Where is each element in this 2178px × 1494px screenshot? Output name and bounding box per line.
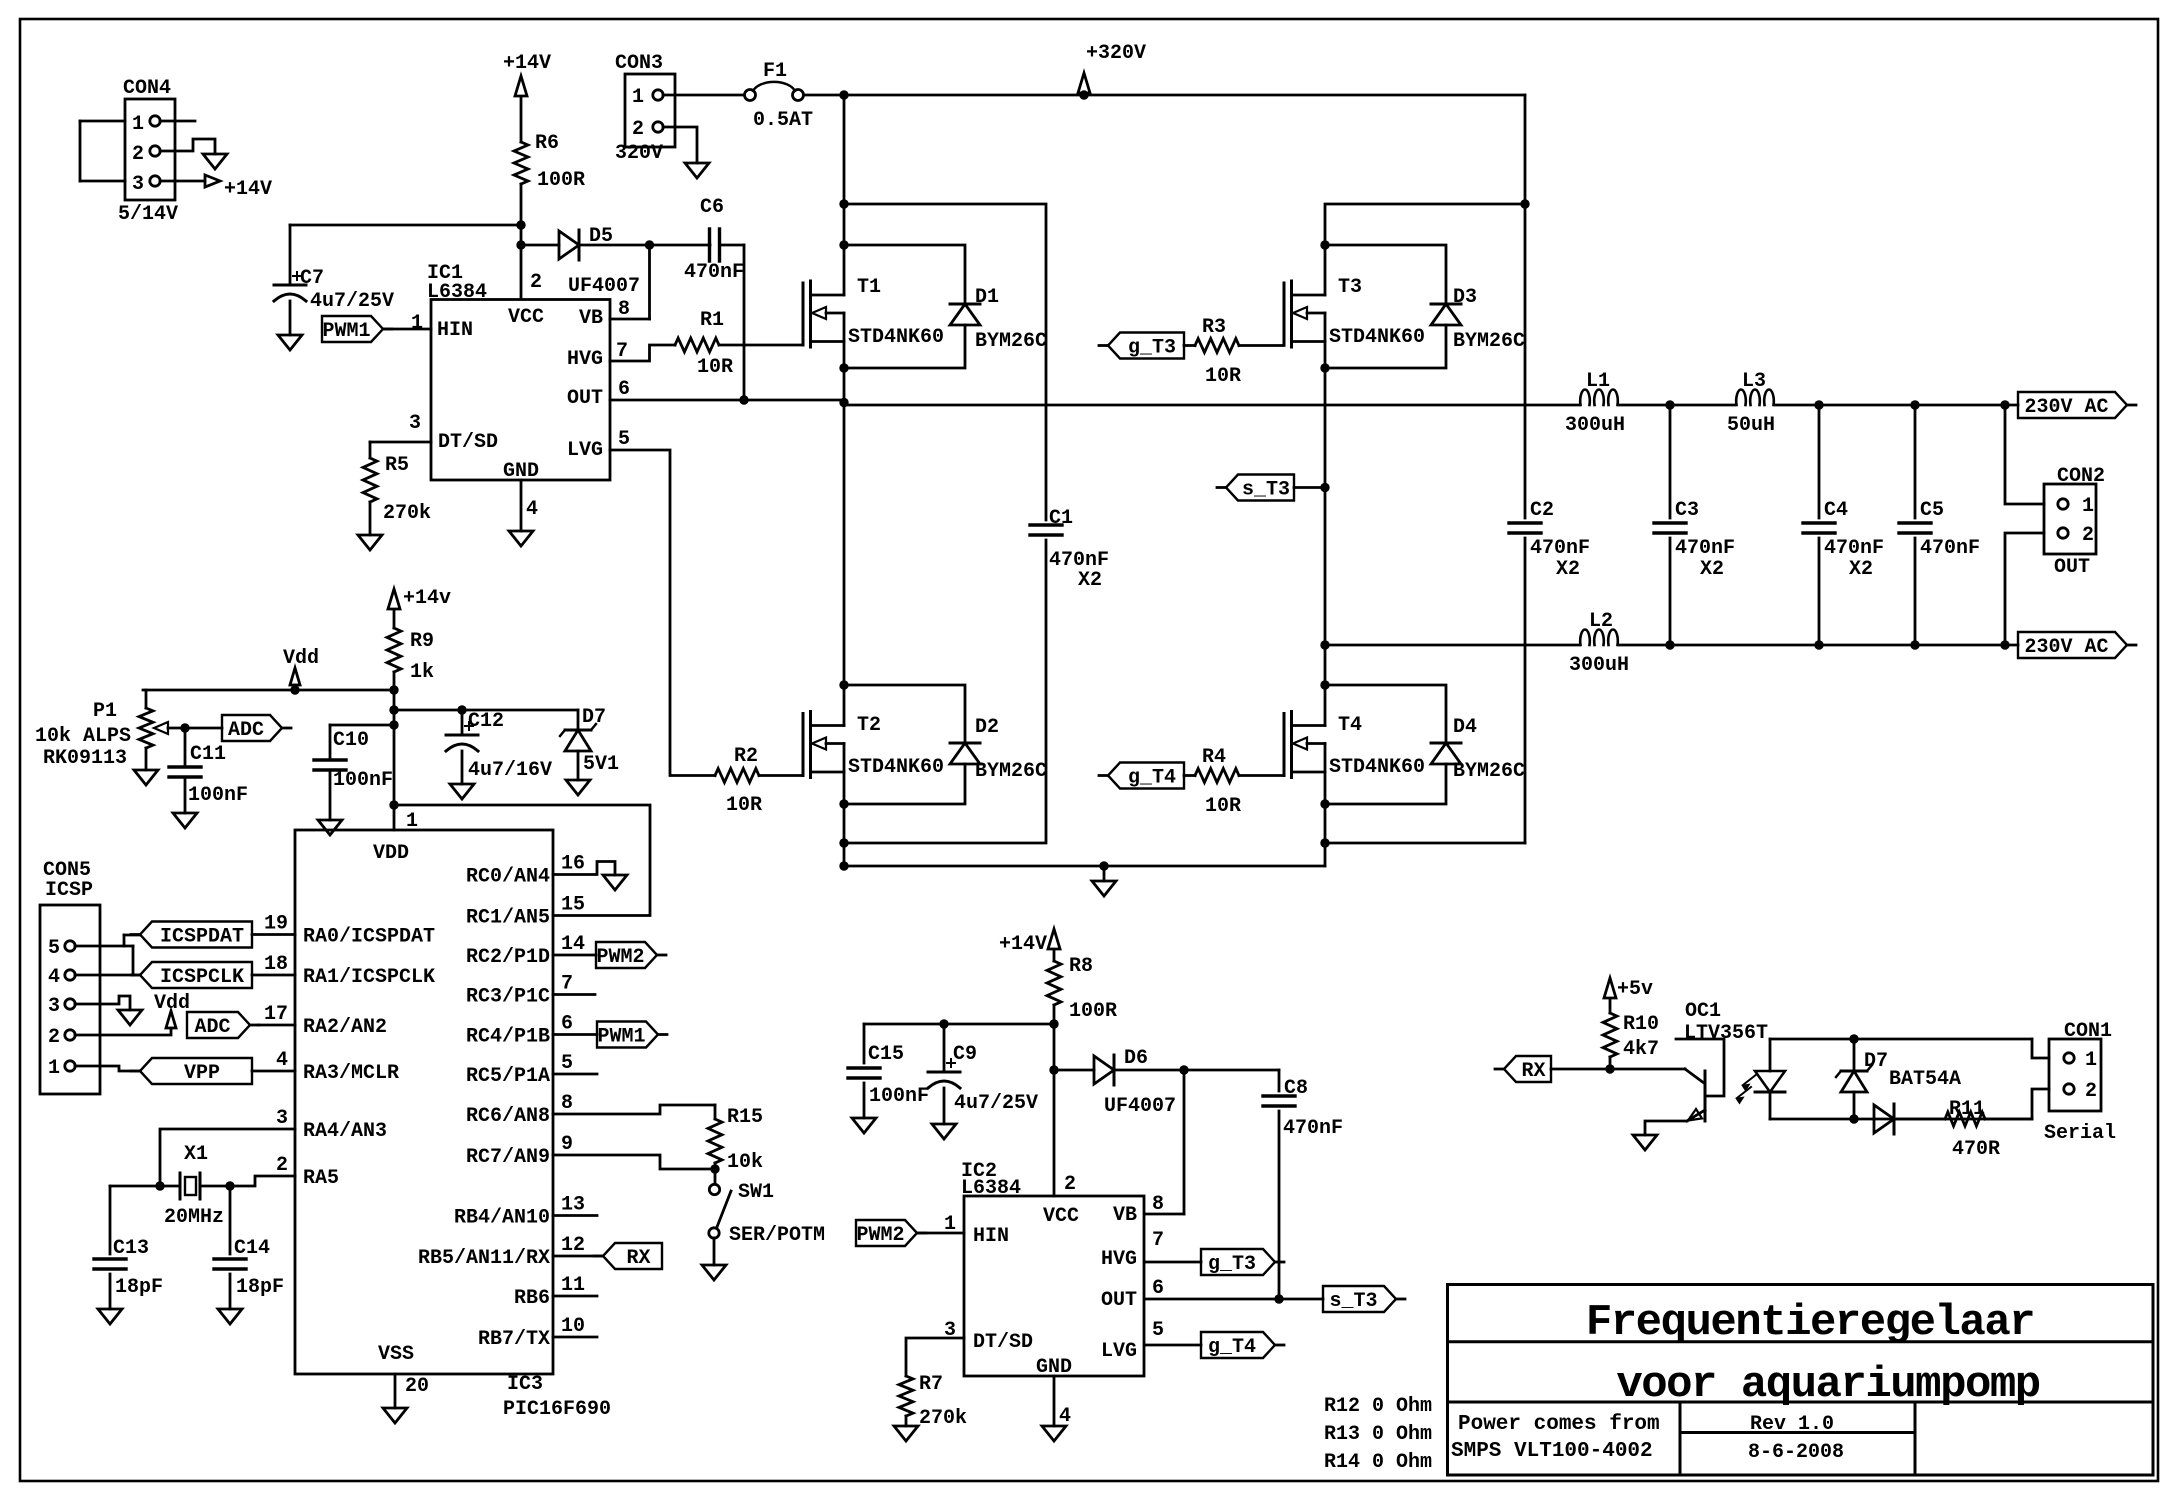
svg-text:T2: T2 bbox=[857, 714, 881, 737]
svg-text:470nF: 470nF bbox=[1675, 537, 1735, 560]
svg-text:5: 5 bbox=[561, 1052, 573, 1075]
svg-text:DT/SD: DT/SD bbox=[973, 1331, 1033, 1354]
svg-text:BYM26C: BYM26C bbox=[1453, 330, 1525, 353]
svg-text:ICSPCLK: ICSPCLK bbox=[160, 966, 244, 989]
svg-text:R5: R5 bbox=[385, 454, 409, 477]
svg-text:6: 6 bbox=[1152, 1277, 1164, 1300]
svg-text:DT/SD: DT/SD bbox=[438, 431, 498, 454]
svg-text:OUT: OUT bbox=[1101, 1289, 1137, 1312]
svg-text:320V: 320V bbox=[615, 142, 663, 165]
svg-text:VCC: VCC bbox=[508, 306, 544, 329]
svg-text:RX: RX bbox=[626, 1247, 650, 1270]
svg-text:VCC: VCC bbox=[1043, 1205, 1079, 1228]
svg-text:8-6-2008: 8-6-2008 bbox=[1748, 1441, 1844, 1464]
svg-text:Rev 1.0: Rev 1.0 bbox=[1750, 1413, 1834, 1436]
svg-text:C10: C10 bbox=[333, 729, 369, 752]
svg-text:RC2/P1D: RC2/P1D bbox=[466, 946, 550, 969]
svg-text:R13 0 Ohm: R13 0 Ohm bbox=[1324, 1423, 1432, 1446]
svg-text:100R: 100R bbox=[537, 169, 585, 192]
svg-text:10R: 10R bbox=[1205, 795, 1241, 818]
svg-text:5: 5 bbox=[1152, 1319, 1164, 1342]
svg-text:T4: T4 bbox=[1338, 714, 1362, 737]
svg-text:18pF: 18pF bbox=[236, 1276, 284, 1299]
svg-text:470nF: 470nF bbox=[684, 261, 744, 284]
svg-text:RA5: RA5 bbox=[303, 1167, 339, 1190]
svg-text:s_T3: s_T3 bbox=[1329, 1290, 1377, 1313]
svg-text:F1: F1 bbox=[763, 60, 787, 83]
svg-text:10k: 10k bbox=[727, 1151, 763, 1174]
svg-text:R6: R6 bbox=[535, 132, 559, 155]
svg-text:5: 5 bbox=[48, 937, 60, 960]
svg-text:C12: C12 bbox=[468, 710, 504, 733]
svg-text:10: 10 bbox=[561, 1315, 585, 1338]
svg-text:20MHz: 20MHz bbox=[164, 1206, 224, 1229]
svg-text:R3: R3 bbox=[1202, 316, 1226, 339]
svg-text:voor aquariumpomp: voor aquariumpomp bbox=[1616, 1360, 2039, 1410]
svg-text:ICSPDAT: ICSPDAT bbox=[160, 926, 244, 949]
svg-text:4u7/25V: 4u7/25V bbox=[310, 290, 394, 313]
svg-text:g_T4: g_T4 bbox=[1208, 1336, 1256, 1359]
svg-text:270k: 270k bbox=[919, 1407, 967, 1430]
svg-text:RC0/AN4: RC0/AN4 bbox=[466, 866, 550, 889]
svg-text:VDD: VDD bbox=[373, 842, 409, 865]
svg-text:C2: C2 bbox=[1530, 499, 1554, 522]
svg-text:X1: X1 bbox=[184, 1143, 208, 1166]
svg-text:R8: R8 bbox=[1069, 955, 1093, 978]
svg-text:+14V: +14V bbox=[503, 52, 551, 75]
svg-text:LTV356T: LTV356T bbox=[1684, 1022, 1768, 1045]
svg-text:RA3/MCLR: RA3/MCLR bbox=[303, 1062, 399, 1085]
svg-text:18pF: 18pF bbox=[115, 1276, 163, 1299]
svg-text:1: 1 bbox=[411, 312, 423, 335]
svg-text:2: 2 bbox=[276, 1154, 288, 1177]
svg-text:14: 14 bbox=[561, 933, 585, 956]
svg-text:R15: R15 bbox=[727, 1106, 763, 1129]
svg-text:D7: D7 bbox=[582, 706, 606, 729]
svg-text:VPP: VPP bbox=[184, 1062, 220, 1085]
svg-text:4: 4 bbox=[276, 1049, 288, 1072]
svg-text:CON4: CON4 bbox=[123, 77, 171, 100]
svg-text:C14: C14 bbox=[234, 1237, 270, 1260]
svg-text:VSS: VSS bbox=[378, 1343, 414, 1366]
svg-text:8: 8 bbox=[618, 298, 630, 321]
svg-text:20: 20 bbox=[405, 1375, 429, 1398]
svg-text:C15: C15 bbox=[868, 1043, 904, 1066]
svg-text:ADC: ADC bbox=[194, 1016, 230, 1039]
svg-text:OC1: OC1 bbox=[1685, 1000, 1721, 1023]
svg-text:10k ALPS: 10k ALPS bbox=[35, 725, 131, 748]
svg-text:C9: C9 bbox=[953, 1043, 977, 1066]
svg-text:LVG: LVG bbox=[567, 439, 603, 462]
svg-text:CON2: CON2 bbox=[2057, 465, 2105, 488]
svg-text:+5v: +5v bbox=[1617, 978, 1653, 1001]
svg-text:2: 2 bbox=[48, 1026, 60, 1049]
svg-text:+14V: +14V bbox=[999, 933, 1047, 956]
svg-text:100R: 100R bbox=[1069, 1000, 1117, 1023]
svg-text:D3: D3 bbox=[1453, 286, 1477, 309]
svg-text:7: 7 bbox=[561, 973, 573, 996]
svg-text:IC3: IC3 bbox=[507, 1373, 543, 1396]
svg-text:CON3: CON3 bbox=[615, 52, 663, 75]
svg-text:STD4NK60: STD4NK60 bbox=[1329, 326, 1425, 349]
svg-text:Power comes from: Power comes from bbox=[1458, 1413, 1660, 1436]
svg-text:SMPS VLT100-4002: SMPS VLT100-4002 bbox=[1451, 1440, 1653, 1463]
svg-text:R12 0 Ohm: R12 0 Ohm bbox=[1324, 1395, 1432, 1418]
svg-text:T3: T3 bbox=[1338, 276, 1362, 299]
svg-text:L3: L3 bbox=[1742, 370, 1766, 393]
svg-text:470nF: 470nF bbox=[1920, 537, 1980, 560]
svg-text:CON1: CON1 bbox=[2064, 1020, 2112, 1043]
svg-text:50uH: 50uH bbox=[1727, 414, 1775, 437]
svg-text:STD4NK60: STD4NK60 bbox=[1329, 756, 1425, 779]
svg-text:R1: R1 bbox=[700, 309, 724, 332]
svg-text:T1: T1 bbox=[857, 276, 881, 299]
svg-text:g_T4: g_T4 bbox=[1128, 767, 1176, 790]
svg-text:PWM1: PWM1 bbox=[597, 1026, 645, 1049]
svg-text:2: 2 bbox=[2082, 524, 2094, 547]
svg-text:10R: 10R bbox=[1205, 365, 1241, 388]
svg-text:2: 2 bbox=[632, 118, 644, 141]
svg-text:HIN: HIN bbox=[437, 319, 473, 342]
svg-text:HVG: HVG bbox=[567, 348, 603, 371]
svg-text:2: 2 bbox=[2085, 1080, 2097, 1103]
svg-text:470nF: 470nF bbox=[1283, 1117, 1343, 1140]
svg-text:g_T3: g_T3 bbox=[1128, 337, 1176, 360]
svg-text:PIC16F690: PIC16F690 bbox=[503, 1398, 611, 1421]
svg-text:R10: R10 bbox=[1623, 1013, 1659, 1036]
svg-text:g_T3: g_T3 bbox=[1208, 1253, 1256, 1276]
svg-text:1k: 1k bbox=[410, 661, 434, 684]
svg-text:C13: C13 bbox=[113, 1237, 149, 1260]
svg-text:+14v: +14v bbox=[403, 587, 451, 610]
svg-text:11: 11 bbox=[561, 1274, 585, 1297]
svg-text:RA4/AN3: RA4/AN3 bbox=[303, 1120, 387, 1143]
svg-text:4k7: 4k7 bbox=[1623, 1038, 1659, 1061]
svg-text:RB6: RB6 bbox=[514, 1287, 550, 1310]
svg-text:RB4/AN10: RB4/AN10 bbox=[454, 1207, 550, 1230]
svg-text:BYM26C: BYM26C bbox=[975, 330, 1047, 353]
svg-text:VB: VB bbox=[579, 307, 603, 330]
svg-text:230V AC: 230V AC bbox=[2024, 636, 2108, 659]
svg-text:10R: 10R bbox=[697, 356, 733, 379]
svg-text:D7: D7 bbox=[1864, 1050, 1888, 1073]
svg-text:100nF: 100nF bbox=[333, 769, 393, 792]
svg-text:HVG: HVG bbox=[1101, 1248, 1137, 1271]
svg-text:RC5/P1A: RC5/P1A bbox=[466, 1065, 550, 1088]
svg-text:4u7/25V: 4u7/25V bbox=[954, 1092, 1038, 1115]
svg-text:RC6/AN8: RC6/AN8 bbox=[466, 1105, 550, 1128]
svg-text:R14 0 Ohm: R14 0 Ohm bbox=[1324, 1451, 1432, 1474]
svg-text:Serial: Serial bbox=[2044, 1122, 2116, 1145]
svg-text:300uH: 300uH bbox=[1569, 654, 1629, 677]
svg-text:18: 18 bbox=[264, 953, 288, 976]
svg-text:R7: R7 bbox=[919, 1373, 943, 1396]
svg-text:15: 15 bbox=[561, 894, 585, 917]
svg-text:C7: C7 bbox=[300, 267, 324, 290]
svg-text:OUT: OUT bbox=[567, 387, 603, 410]
svg-text:s_T3: s_T3 bbox=[1242, 479, 1290, 502]
svg-text:100nF: 100nF bbox=[188, 784, 248, 807]
svg-text:RK09113: RK09113 bbox=[43, 747, 127, 770]
svg-text:C5: C5 bbox=[1920, 499, 1944, 522]
svg-text:R4: R4 bbox=[1202, 746, 1226, 769]
svg-text:19: 19 bbox=[264, 913, 288, 936]
svg-text:470R: 470R bbox=[1952, 1138, 2000, 1161]
svg-text:12: 12 bbox=[561, 1234, 585, 1257]
svg-text:RB7/TX: RB7/TX bbox=[478, 1328, 550, 1351]
svg-text:P1: P1 bbox=[93, 700, 117, 723]
svg-text:100nF: 100nF bbox=[869, 1085, 929, 1108]
svg-text:SW1: SW1 bbox=[738, 1181, 774, 1204]
svg-text:OUT: OUT bbox=[2054, 556, 2090, 579]
svg-text:1: 1 bbox=[132, 113, 144, 136]
svg-text:BYM26C: BYM26C bbox=[1453, 760, 1525, 783]
svg-text:1: 1 bbox=[48, 1057, 60, 1080]
svg-text:C3: C3 bbox=[1675, 499, 1699, 522]
svg-text:2: 2 bbox=[1064, 1173, 1076, 1196]
svg-text:RC7/AN9: RC7/AN9 bbox=[466, 1146, 550, 1169]
svg-text:7: 7 bbox=[616, 340, 628, 363]
svg-text:+14V: +14V bbox=[224, 178, 272, 201]
svg-text:Frequentieregelaar: Frequentieregelaar bbox=[1586, 1298, 2034, 1348]
svg-text:STD4NK60: STD4NK60 bbox=[848, 756, 944, 779]
svg-text:5V1: 5V1 bbox=[583, 753, 619, 776]
svg-text:9: 9 bbox=[561, 1133, 573, 1156]
svg-text:13: 13 bbox=[561, 1194, 585, 1217]
svg-text:300uH: 300uH bbox=[1565, 414, 1625, 437]
svg-text:LVG: LVG bbox=[1101, 1340, 1137, 1363]
svg-text:1: 1 bbox=[406, 810, 418, 833]
svg-text:270k: 270k bbox=[383, 502, 431, 525]
svg-text:5: 5 bbox=[618, 428, 630, 451]
svg-text:ADC: ADC bbox=[228, 719, 264, 742]
svg-text:RC3/P1C: RC3/P1C bbox=[466, 986, 550, 1009]
svg-text:SER/POTM: SER/POTM bbox=[729, 1224, 825, 1247]
svg-text:L6384: L6384 bbox=[427, 281, 487, 304]
svg-text:C8: C8 bbox=[1284, 1077, 1308, 1100]
svg-text:230V AC: 230V AC bbox=[2024, 396, 2108, 419]
svg-text:8: 8 bbox=[1152, 1193, 1164, 1216]
svg-text:ICSP: ICSP bbox=[45, 879, 93, 902]
svg-text:L1: L1 bbox=[1586, 370, 1610, 393]
svg-text:X2: X2 bbox=[1078, 569, 1102, 592]
svg-text:4: 4 bbox=[1059, 1405, 1071, 1428]
svg-text:C11: C11 bbox=[190, 743, 226, 766]
svg-text:RA1/ICSPCLK: RA1/ICSPCLK bbox=[303, 966, 435, 989]
svg-text:HIN: HIN bbox=[973, 1225, 1009, 1248]
svg-text:PWM1: PWM1 bbox=[322, 320, 370, 343]
svg-text:2: 2 bbox=[530, 271, 542, 294]
svg-text:+320V: +320V bbox=[1086, 42, 1146, 65]
svg-text:RC4/P1B: RC4/P1B bbox=[466, 1026, 550, 1049]
svg-text:470nF: 470nF bbox=[1824, 537, 1884, 560]
svg-text:4: 4 bbox=[526, 498, 538, 521]
svg-text:BAT54A: BAT54A bbox=[1889, 1068, 1961, 1091]
svg-text:3: 3 bbox=[48, 995, 60, 1018]
svg-text:RB5/AN11/RX: RB5/AN11/RX bbox=[418, 1247, 550, 1270]
svg-text:8: 8 bbox=[561, 1092, 573, 1115]
svg-text:STD4NK60: STD4NK60 bbox=[848, 326, 944, 349]
svg-text:L6384: L6384 bbox=[961, 1177, 1021, 1200]
svg-text:D6: D6 bbox=[1124, 1047, 1148, 1070]
svg-text:L2: L2 bbox=[1589, 610, 1613, 633]
svg-text:X2: X2 bbox=[1556, 558, 1580, 581]
svg-text:X2: X2 bbox=[1700, 558, 1724, 581]
svg-text:VB: VB bbox=[1113, 1204, 1137, 1227]
svg-text:RA2/AN2: RA2/AN2 bbox=[303, 1016, 387, 1039]
svg-text:RA0/ICSPDAT: RA0/ICSPDAT bbox=[303, 926, 435, 949]
svg-text:PWM2: PWM2 bbox=[596, 946, 644, 969]
svg-text:UF4007: UF4007 bbox=[568, 275, 640, 298]
svg-text:3: 3 bbox=[276, 1107, 288, 1130]
svg-text:5/14V: 5/14V bbox=[118, 203, 178, 226]
svg-text:17: 17 bbox=[264, 1003, 288, 1026]
svg-text:1: 1 bbox=[2082, 495, 2094, 518]
svg-text:PWM2: PWM2 bbox=[856, 1224, 904, 1247]
svg-text:D4: D4 bbox=[1453, 716, 1477, 739]
svg-text:D1: D1 bbox=[975, 286, 999, 309]
svg-text:D2: D2 bbox=[975, 716, 999, 739]
svg-text:X2: X2 bbox=[1849, 558, 1873, 581]
svg-text:470nF: 470nF bbox=[1530, 537, 1590, 560]
svg-text:4: 4 bbox=[48, 966, 60, 989]
svg-text:6: 6 bbox=[618, 378, 630, 401]
svg-text:3: 3 bbox=[132, 173, 144, 196]
svg-text:C6: C6 bbox=[700, 196, 724, 219]
svg-text:2: 2 bbox=[132, 143, 144, 166]
svg-text:0.5AT: 0.5AT bbox=[753, 109, 813, 132]
svg-text:3: 3 bbox=[409, 412, 421, 435]
svg-text:R11: R11 bbox=[1949, 1098, 1985, 1121]
svg-text:C4: C4 bbox=[1824, 499, 1848, 522]
svg-text:Vdd: Vdd bbox=[154, 992, 190, 1015]
svg-text:Vdd: Vdd bbox=[283, 647, 319, 670]
svg-text:7: 7 bbox=[1152, 1229, 1164, 1252]
svg-text:6: 6 bbox=[561, 1013, 573, 1036]
svg-text:UF4007: UF4007 bbox=[1104, 1095, 1176, 1118]
svg-text:1: 1 bbox=[2085, 1049, 2097, 1072]
svg-text:1: 1 bbox=[632, 86, 644, 109]
svg-text:4u7/16V: 4u7/16V bbox=[468, 759, 552, 782]
svg-text:RX: RX bbox=[1521, 1060, 1545, 1083]
svg-text:10R: 10R bbox=[726, 794, 762, 817]
svg-text:C1: C1 bbox=[1049, 507, 1073, 530]
svg-text:RC1/AN5: RC1/AN5 bbox=[466, 907, 550, 930]
svg-text:BYM26C: BYM26C bbox=[975, 760, 1047, 783]
svg-text:16: 16 bbox=[561, 853, 585, 876]
svg-text:R9: R9 bbox=[410, 630, 434, 653]
svg-text:R2: R2 bbox=[734, 745, 758, 768]
